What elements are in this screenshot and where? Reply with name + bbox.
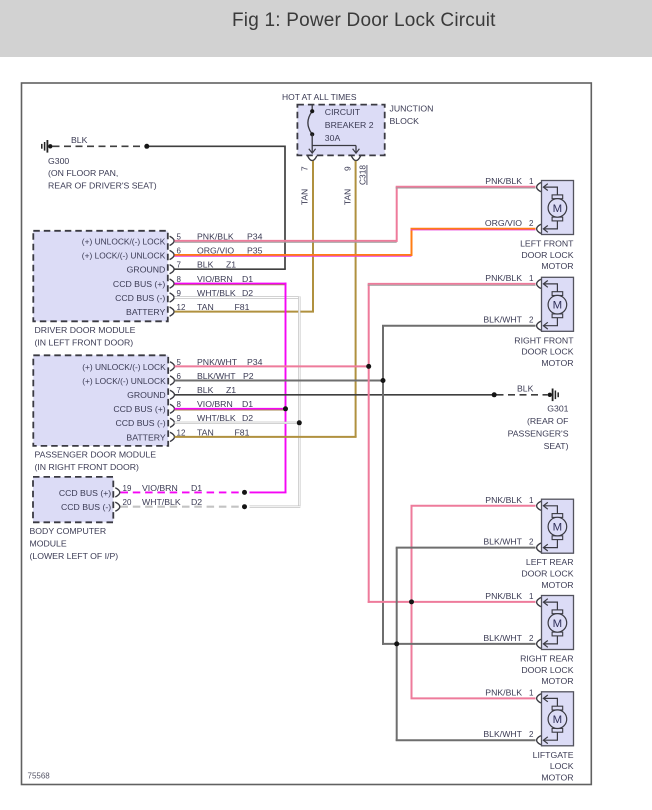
- label G300 location: [48, 156, 157, 191]
- svg-text:(REAR OF: (REAR OF: [527, 416, 569, 426]
- wire ORG/VIO driver pin 6: [175, 255, 412, 256]
- circuit breaker 2 30A: [308, 105, 314, 146]
- svg-text:ORG/VIO: ORG/VIO: [197, 245, 234, 255]
- wire BLK/WHT vertical right-front/rear net: [382, 326, 384, 645]
- svg-text:REAR OF DRIVER'S SEAT): REAR OF DRIVER'S SEAT): [48, 181, 157, 191]
- label BLK Z1 passenger pin 7: [197, 385, 236, 395]
- svg-text:M: M: [553, 714, 563, 726]
- svg-text:CCD BUS (+): CCD BUS (+): [113, 404, 165, 414]
- junction block: [297, 105, 384, 156]
- wire WHT/BLK ccd bus vertical: [298, 297, 300, 507]
- wire WHT/BLK solid to vertical: [250, 506, 301, 508]
- svg-text:BATTERY: BATTERY: [126, 432, 165, 442]
- svg-text:P2: P2: [243, 371, 254, 381]
- motor left rear door lock: [537, 499, 574, 553]
- svg-text:7: 7: [177, 261, 182, 270]
- wire BLK/WHT passenger pin 6: [175, 380, 384, 382]
- label WHT/BLK D2 body pin 20: [142, 497, 202, 507]
- connector C318 cavity 9: [351, 156, 360, 161]
- svg-text:2: 2: [529, 634, 534, 643]
- svg-text:M: M: [553, 522, 563, 534]
- motor left rear door lock label: [521, 557, 573, 590]
- svg-text:PNK/WHT: PNK/WHT: [197, 357, 238, 367]
- label PNK/BLK 1: [485, 495, 534, 505]
- svg-text:D1: D1: [242, 274, 253, 284]
- svg-text:CCD BUS (-): CCD BUS (-): [115, 418, 165, 428]
- svg-text:C318: C318: [358, 165, 368, 185]
- svg-text:LEFT REAR: LEFT REAR: [526, 557, 574, 567]
- wire PNK/BLK to left rear motor pin 1: [411, 505, 536, 507]
- wire BLK solid G300 to corner: [148, 145, 285, 147]
- svg-text:P34: P34: [247, 231, 263, 241]
- svg-text:D1: D1: [242, 399, 253, 409]
- svg-text:LIFTGATE: LIFTGATE: [533, 750, 574, 760]
- svg-text:7: 7: [177, 386, 182, 395]
- label PNK/BLK 1: [485, 176, 534, 186]
- driver door module: [33, 231, 168, 321]
- wire TAN driver pin 12 battery: [175, 311, 315, 313]
- svg-text:GROUND: GROUND: [127, 390, 166, 400]
- junction block output arrow 2: [353, 146, 360, 154]
- svg-text:PASSENGER DOOR MODULE: PASSENGER DOOR MODULE: [35, 450, 157, 460]
- svg-text:BLK: BLK: [71, 135, 88, 145]
- wire VIO/BRN dashed body pin 19: [121, 491, 240, 493]
- svg-text:Z1: Z1: [226, 260, 236, 270]
- label VIO/BRN D1 passenger pin 8: [197, 399, 253, 409]
- svg-text:PNK/BLK: PNK/BLK: [485, 687, 522, 697]
- motor right rear door lock label: [520, 654, 574, 687]
- driver door module pin 8 CCD BUS (+): [113, 275, 182, 289]
- motor right front door lock: [537, 277, 574, 331]
- node ccd+ splice: [242, 490, 247, 495]
- node passenger pin 5 junction: [366, 364, 371, 369]
- wire BLK dashed to G301: [497, 394, 548, 396]
- svg-text:2: 2: [529, 316, 534, 325]
- wire VIO/BRN driver pin 8 ccd+: [175, 284, 287, 285]
- node passenger pin 6 junction: [381, 378, 386, 383]
- label PNK/BLK 1: [485, 273, 534, 283]
- wire BLK/WHT rear branch vertical: [396, 548, 398, 741]
- wire PNK/BLK vertical right-front/rear net: [368, 284, 370, 603]
- wire BLK/WHT to liftgate motor pin 2: [396, 739, 536, 741]
- svg-text:BLK: BLK: [517, 384, 534, 394]
- svg-text:DOOR LOCK: DOOR LOCK: [521, 347, 573, 357]
- label TAN F81 driver pin 12: [197, 302, 250, 312]
- svg-text:BLK: BLK: [197, 385, 214, 395]
- driver door module pin 12 BATTERY: [126, 303, 186, 317]
- junction block output arrow 1: [309, 146, 316, 154]
- svg-text:(+) UNLOCK/(-) LOCK: (+) UNLOCK/(-) LOCK: [82, 236, 166, 246]
- label BLK Z1 driver pin 7: [197, 260, 236, 270]
- node passenger pin 8 junction: [283, 406, 288, 411]
- svg-text:BLK/WHT: BLK/WHT: [483, 633, 522, 643]
- svg-text:(LOWER LEFT OF I/P): (LOWER LEFT OF I/P): [30, 551, 119, 561]
- svg-text:BLK/WHT: BLK/WHT: [483, 537, 522, 547]
- wire BLK vertical down to driver pin 7: [284, 146, 286, 270]
- svg-text:BREAKER 2: BREAKER 2: [325, 120, 374, 130]
- svg-text:PNK/BLK: PNK/BLK: [485, 495, 522, 505]
- motor liftgate lock: [537, 692, 574, 746]
- wire BLK dashed from G300: [53, 145, 145, 147]
- svg-text:PNK/BLK: PNK/BLK: [485, 591, 522, 601]
- passenger door module pin 5 (+) UNLOCK/(-) LOCK: [82, 358, 181, 372]
- label VIO/BRN D1 body pin 19: [142, 483, 202, 493]
- svg-text:1: 1: [529, 274, 534, 283]
- wire BLK/WHT to right front motor pin 2: [382, 325, 536, 327]
- svg-text:M: M: [553, 203, 563, 215]
- svg-text:PNK/BLK: PNK/BLK: [485, 176, 522, 186]
- svg-text:BATTERY: BATTERY: [126, 307, 165, 317]
- svg-text:SEAT): SEAT): [544, 441, 569, 451]
- svg-text:1: 1: [529, 688, 534, 697]
- ground G300: [42, 140, 53, 153]
- body computer module pin 19 CCD BUS (+): [59, 484, 132, 498]
- label WHT/BLK D2 driver pin 9: [197, 288, 253, 298]
- passenger door module pin 8 CCD BUS (+): [113, 400, 181, 414]
- svg-text:(IN LEFT FRONT DOOR): (IN LEFT FRONT DOOR): [35, 337, 134, 347]
- svg-text:CIRCUIT: CIRCUIT: [325, 107, 361, 117]
- svg-text:CCD BUS (-): CCD BUS (-): [115, 293, 165, 303]
- passenger door module label: [35, 450, 157, 472]
- svg-text:RIGHT FRONT: RIGHT FRONT: [514, 335, 574, 345]
- wire PNK/BLK vertical to left front motor: [396, 187, 398, 242]
- node G301 splice: [492, 392, 497, 397]
- driver door module label: [35, 325, 136, 347]
- wire VIO/BRN passenger pin 8: [175, 409, 285, 410]
- svg-text:P34: P34: [247, 357, 263, 367]
- wire VIO/BRN ccd bus vertical: [285, 283, 287, 493]
- svg-text:(IN RIGHT FRONT DOOR): (IN RIGHT FRONT DOOR): [35, 462, 140, 472]
- label BLK/WHT 2: [483, 315, 534, 325]
- node splice on G300 wire: [144, 144, 149, 149]
- wire ORG/VIO vertical to left front motor: [411, 229, 413, 256]
- svg-text:TAN: TAN: [300, 189, 310, 205]
- wire PNK/BLK driver pin 5: [175, 241, 397, 242]
- svg-text:RIGHT REAR: RIGHT REAR: [520, 654, 573, 664]
- svg-text:BLOCK: BLOCK: [390, 116, 420, 126]
- wire WHT/BLK dashed body pin 20: [121, 506, 240, 508]
- svg-text:TAN: TAN: [197, 427, 214, 437]
- svg-text:2: 2: [529, 538, 534, 547]
- wire internal tee to second output: [312, 145, 356, 147]
- driver door module pin 9 CCD BUS (-): [115, 289, 181, 303]
- passenger door module: [33, 355, 168, 446]
- svg-text:DOOR LOCK: DOOR LOCK: [521, 665, 573, 675]
- label JUNCTION BLOCK: [390, 104, 434, 126]
- label WHT/BLK D2 passenger pin 9: [197, 413, 253, 423]
- svg-text:VIO/BRN: VIO/BRN: [197, 274, 233, 284]
- passenger door module pin 6 (+) LOCK/(-) UNLOCK: [82, 372, 181, 386]
- svg-text:30A: 30A: [325, 133, 341, 143]
- wire WHT/BLK passenger pin 9: [175, 422, 299, 424]
- svg-text:2: 2: [529, 730, 534, 739]
- svg-text:2: 2: [529, 219, 534, 228]
- svg-text:BODY COMPUTER: BODY COMPUTER: [30, 526, 107, 536]
- svg-text:VIO/BRN: VIO/BRN: [142, 483, 178, 493]
- svg-text:DOOR LOCK: DOOR LOCK: [521, 250, 573, 260]
- label VIO/BRN D1 driver pin 8: [197, 274, 253, 284]
- svg-text:MOTOR: MOTOR: [541, 261, 573, 271]
- svg-text:MOTOR: MOTOR: [541, 676, 573, 686]
- wire PNK/BLK to liftgate motor pin 1: [411, 697, 536, 699]
- svg-text:MOTOR: MOTOR: [541, 580, 573, 590]
- wire PNK/BLK to right front motor pin 1: [368, 284, 536, 285]
- svg-text:LEFT FRONT: LEFT FRONT: [520, 239, 574, 249]
- label PNK/BLK 1: [485, 591, 534, 601]
- svg-text:MOTOR: MOTOR: [541, 358, 573, 368]
- svg-text:DOOR LOCK: DOOR LOCK: [521, 569, 573, 579]
- wire TAN 9 vertical to passenger battery pin: [355, 161, 357, 437]
- node rear pink tee: [409, 599, 414, 604]
- label PNK/WHT P34 passenger pin 5: [197, 357, 263, 367]
- wire ORG/VIO to left front motor pin 2: [411, 229, 536, 230]
- wire PNK/BLK rear branch vertical: [411, 506, 413, 699]
- svg-text:TAN: TAN: [343, 189, 353, 205]
- svg-text:Z1: Z1: [226, 385, 236, 395]
- wire BLK driver pin 7 ground: [175, 268, 286, 270]
- label TAN 9 vertical: [343, 166, 353, 205]
- wire BLK/WHT to left rear motor pin 2: [396, 547, 536, 549]
- svg-text:F81: F81: [235, 302, 250, 312]
- wire WHT/BLK driver pin 9 ccd-: [175, 296, 301, 298]
- svg-text:1: 1: [529, 177, 534, 186]
- label BLK/WHT 2: [483, 537, 534, 547]
- passenger door module pin 9 CCD BUS (-): [115, 414, 181, 428]
- label CIRCUIT BREAKER 2 30A: [325, 107, 374, 143]
- svg-text:M: M: [553, 300, 563, 312]
- motor left front door lock: [537, 181, 574, 235]
- label PNK/BLK 1: [485, 687, 534, 697]
- svg-text:BLK/WHT: BLK/WHT: [483, 729, 522, 739]
- driver door module pin 6 (+) LOCK/(-) UNLOCK: [82, 246, 182, 260]
- svg-text:LOCK: LOCK: [550, 761, 574, 771]
- svg-text:F81: F81: [235, 427, 250, 437]
- driver door module pin 5 (+) UNLOCK/(-) LOCK: [82, 232, 182, 246]
- svg-text:G301: G301: [547, 404, 568, 414]
- svg-text:CCD BUS (-): CCD BUS (-): [61, 502, 111, 512]
- svg-text:CCD BUS (+): CCD BUS (+): [113, 279, 165, 289]
- svg-text:(+) UNLOCK/(-) LOCK: (+) UNLOCK/(-) LOCK: [82, 362, 166, 372]
- motor liftgate lock label: [533, 750, 574, 783]
- label PNK/BLK P34 driver pin 5: [197, 231, 263, 241]
- label BLK/WHT 2: [483, 729, 534, 739]
- svg-text:PASSENGER'S: PASSENGER'S: [508, 429, 569, 439]
- driver door module pin 7 GROUND: [127, 261, 182, 275]
- wire PNK/BLK rear feed horizontal: [368, 601, 536, 603]
- svg-text:ORG/VIO: ORG/VIO: [485, 218, 522, 228]
- svg-text:(ON FLOOR PAN,: (ON FLOOR PAN,: [48, 168, 118, 178]
- label G301 location: [508, 404, 569, 451]
- label BLK/WHT 2: [483, 633, 534, 643]
- svg-text:75568: 75568: [28, 772, 51, 781]
- svg-text:BLK/WHT: BLK/WHT: [197, 371, 236, 381]
- passenger door module pin 7 GROUND: [127, 386, 181, 400]
- wire BLK passenger pin 7 to G301: [175, 394, 495, 396]
- node passenger pin 9 junction: [297, 420, 302, 425]
- label ORG/VIO 2: [485, 218, 534, 228]
- svg-text:M: M: [553, 618, 563, 630]
- motor left front door lock label: [520, 239, 574, 272]
- node rear gray tee: [394, 641, 399, 646]
- wire BLK/WHT rear feed horizontal: [382, 643, 536, 645]
- svg-text:BLK/WHT: BLK/WHT: [483, 315, 522, 325]
- svg-text:PNK/BLK: PNK/BLK: [197, 231, 234, 241]
- wire TAN 7 vertical to driver battery pin: [312, 161, 314, 312]
- svg-text:DRIVER DOOR MODULE: DRIVER DOOR MODULE: [35, 325, 136, 335]
- svg-text:CCD BUS (+): CCD BUS (+): [59, 488, 111, 498]
- svg-text:MOTOR: MOTOR: [541, 772, 573, 782]
- wire TAN passenger pin 12 battery: [175, 436, 357, 438]
- svg-text:7: 7: [300, 166, 310, 171]
- svg-text:(+) LOCK/(-) UNLOCK: (+) LOCK/(-) UNLOCK: [82, 376, 166, 386]
- svg-text:1: 1: [529, 496, 534, 505]
- svg-text:TAN: TAN: [197, 302, 214, 312]
- label TAN 7 vertical: [300, 166, 310, 205]
- svg-text:JUNCTION: JUNCTION: [390, 104, 434, 114]
- svg-text:PNK/BLK: PNK/BLK: [485, 273, 522, 283]
- svg-text:9: 9: [343, 166, 353, 171]
- motor right front door lock label: [514, 335, 574, 368]
- svg-text:HOT AT ALL TIMES: HOT AT ALL TIMES: [282, 92, 357, 102]
- connector C318 cavity 7: [308, 156, 317, 161]
- svg-text:VIO/BRN: VIO/BRN: [197, 399, 233, 409]
- body computer module: [33, 477, 113, 522]
- passenger door module pin 12 BATTERY: [126, 428, 186, 442]
- label ORG/VIO P35 driver pin 6: [197, 245, 263, 255]
- svg-text:BLK: BLK: [197, 260, 214, 270]
- svg-text:MODULE: MODULE: [30, 538, 67, 548]
- svg-text:1: 1: [529, 592, 534, 601]
- svg-text:G300: G300: [48, 156, 69, 166]
- ground G301: [548, 389, 559, 402]
- label TAN F81 passenger pin 12: [197, 427, 250, 437]
- body computer module label: [30, 526, 119, 561]
- body computer module pin 20 CCD BUS (-): [61, 498, 132, 512]
- svg-text:GROUND: GROUND: [127, 265, 166, 275]
- wire VIO/BRN solid to vertical: [250, 491, 287, 493]
- svg-text:(+) LOCK/(-) UNLOCK: (+) LOCK/(-) UNLOCK: [82, 250, 166, 260]
- wire PNK/WHT passenger pin 5: [175, 365, 369, 367]
- svg-text:D1: D1: [191, 483, 202, 493]
- node ccd- splice: [242, 504, 247, 509]
- svg-text:P35: P35: [247, 245, 263, 255]
- label BLK/WHT P2 passenger pin 6: [197, 371, 254, 381]
- wire PNK/BLK to left front motor pin 1: [396, 187, 536, 188]
- motor right rear door lock: [537, 596, 574, 650]
